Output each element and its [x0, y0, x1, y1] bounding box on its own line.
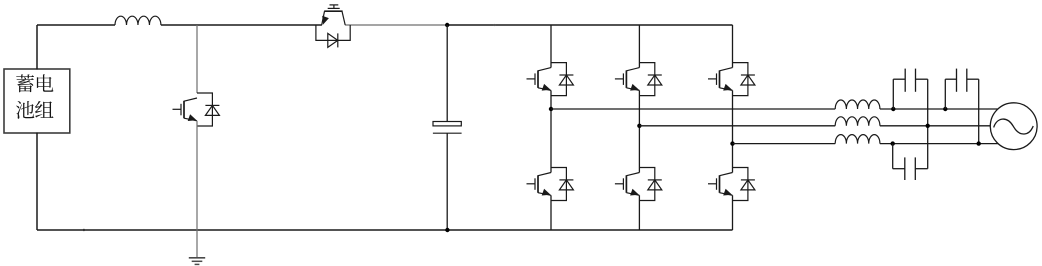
wire boost branch: Q1 emitter down to bottom rail [196, 121, 198, 230]
wire leg 1: upper emitter to lower collector (phase node) [550, 90, 552, 172]
junction: phase A / C2 left lead [891, 107, 895, 111]
wire leg 2: upper emitter to lower collector (phase node) [638, 90, 640, 172]
transistor Q4 (inverter leg 1 lower IGBT) [527, 173, 552, 196]
ground [189, 258, 205, 265]
wire battery positive to top rail [36, 25, 38, 70]
wire leg 3: lower emitter to bottom rail [732, 195, 734, 230]
transistor Q3 (inverter leg 1 upper IGBT) [527, 68, 552, 91]
capacitor C4 (filter, phase C-B) [905, 157, 916, 180]
transistor Q2 (series IGBT, horizontal) [322, 5, 346, 25]
wire C2 left lead horizontal [893, 78, 905, 80]
inductor L2 (phase A filter) [835, 100, 880, 109]
wire leg 3: top rail to upper IGBT [732, 25, 734, 68]
capacitor C1 (DC link) [433, 122, 462, 134]
battery label text 蓄电池组 [16, 74, 53, 118]
battery pack box (蓄电池组) [4, 69, 70, 133]
diode D3 (anti-parallel) [551, 63, 573, 96]
wire C1 top lead [446, 25, 448, 122]
wire C4 left lead horizontal [893, 168, 905, 170]
transistor Q6 (inverter leg 2 lower IGBT) [615, 173, 640, 196]
diode D2 (anti-parallel) [316, 25, 350, 47]
diode D5 (anti-parallel) [639, 63, 661, 96]
wire phase A: L2 to AC grid source [880, 108, 998, 110]
wire top rail: C1 junction to inverter leg 3 corner [447, 24, 732, 26]
transistor Q5 (inverter leg 2 upper IGBT) [615, 68, 640, 91]
diode D7 (anti-parallel) [733, 63, 755, 96]
diode D6 (anti-parallel) [639, 168, 661, 201]
junction: phase C / C4 left lead [891, 141, 895, 145]
wire leg 1: lower emitter to bottom rail [550, 195, 552, 230]
junction: phase C / C3 right lead [977, 141, 981, 145]
transistor Q1 (boost IGBT) [173, 98, 198, 121]
wire leg 1: top rail to upper IGBT [550, 25, 552, 68]
wire C2 right lead horizontal [916, 78, 928, 80]
wire leg 2: top rail to upper IGBT [638, 25, 640, 68]
wire C3 left lead horizontal [945, 78, 956, 80]
wire C3 right lead horizontal [967, 78, 979, 80]
wire bottom rail (negative bus) [37, 229, 733, 231]
wire top rail: battery corner to inductor L1 [37, 24, 115, 26]
node phase A junction [549, 107, 553, 111]
capacitor C3 (filter, phase A-C) [957, 69, 967, 92]
capacitor C2 (filter, phase A-B) [905, 69, 915, 92]
node phase B junction [637, 124, 641, 128]
wire phase C: L4 to AC grid source [880, 143, 998, 145]
diode D1 (anti-parallel) [197, 93, 219, 126]
wire leg 3: upper emitter to lower collector (phase node) [732, 90, 734, 172]
junction: bottom rail / C1 [445, 228, 449, 232]
transistor Q8 (inverter leg 3 lower IGBT) [708, 173, 733, 196]
wire C1 bottom lead [446, 133, 448, 230]
inductor L1 (boost inductor) [115, 16, 161, 25]
junction: phase A / C3 left lead [943, 107, 947, 111]
wire C3 left lead vertical [944, 79, 946, 109]
junction: top rail / C1 [445, 23, 449, 27]
wire C4 left lead vertical [892, 144, 894, 169]
node phase C junction [730, 141, 734, 145]
wire bottom rail to ground [196, 230, 198, 257]
wire phase A: leg1 to filter inductor L2 [551, 108, 835, 110]
wire C2/C4 shared vertical to phase B [927, 79, 929, 169]
inductor L3 (phase B filter) [835, 117, 880, 126]
transistor Q7 (inverter leg 3 upper IGBT) [708, 68, 733, 91]
AC grid source G1 [990, 103, 1037, 150]
inductor L4 (phase C filter) [835, 135, 880, 144]
wire C2 left lead vertical [892, 79, 894, 109]
wire top rail: L1 to IGBT Q2 emitter [161, 24, 322, 26]
junction (small) on top rail [494, 24, 496, 26]
wire C3 right lead vertical to phase C [978, 79, 980, 143]
wire C4 right lead horizontal [915, 168, 927, 170]
wire phase C: leg3 to filter inductor L4 [733, 143, 836, 145]
diode D8 (anti-parallel) [733, 168, 755, 201]
wire phase B: L3 to AC grid source [880, 125, 991, 127]
wire battery negative to bottom rail [36, 133, 38, 231]
junction (small) on bottom rail [83, 229, 85, 231]
wire boost branch: top rail junction down to Q1 collector [196, 25, 198, 93]
wire leg 2: lower emitter to bottom rail [638, 195, 640, 230]
wire phase B: leg2 to filter inductor L3 [639, 125, 835, 127]
diode D4 (anti-parallel) [551, 168, 573, 201]
junction: phase B / C2-C4 leads [926, 124, 930, 128]
wire top rail: Q2 collector to C1 junction [345, 24, 447, 26]
